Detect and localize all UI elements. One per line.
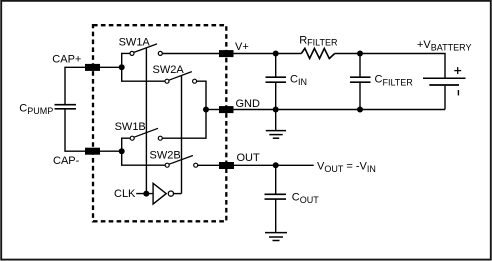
- ground symbol (input side): [266, 110, 286, 139]
- switch SW1B: [130, 128, 162, 140]
- drive line A (CLK phase): [145, 48, 147, 194]
- svg-text:GND: GND: [236, 98, 261, 110]
- wire inverter output to drive line B: [174, 193, 182, 195]
- label VOUT = -VIN: [317, 161, 376, 175]
- wire C_PUMP bottom to CAP- pin: [65, 109, 85, 151]
- label V+: [235, 41, 249, 53]
- wire SW2B to OUT pin: [198, 164, 219, 166]
- wire CAP- pin to internal node: [100, 150, 122, 152]
- label GND: [236, 98, 261, 110]
- label OUT: [237, 152, 261, 164]
- wire node CAP+ down to SW2A: [122, 67, 165, 81]
- junction node GND internal: [203, 107, 209, 113]
- junction node OUT (C_OUT top): [273, 162, 279, 168]
- junction node CFILTER top: [357, 51, 363, 57]
- label CLK: [114, 188, 136, 200]
- wire GND node to GND pin: [206, 109, 219, 111]
- svg-text:OUT: OUT: [237, 152, 261, 164]
- svg-text:SW2B: SW2B: [150, 149, 181, 161]
- capacitor C_FILTER: [350, 54, 371, 110]
- junction node VIN (C_IN top): [273, 51, 279, 57]
- pin GND: [219, 106, 234, 113]
- label R_FILTER: [299, 34, 338, 47]
- pin V+: [219, 50, 234, 57]
- capacitor C_PUMP: [55, 105, 77, 109]
- capacitor C_IN: [266, 54, 287, 110]
- wire CAP+ pin to C_PUMP top: [65, 67, 85, 104]
- wire SW1B to GND node: [162, 110, 206, 139]
- svg-text:SW2A: SW2A: [153, 64, 185, 76]
- svg-text:CLK: CLK: [114, 188, 136, 200]
- wire CAP+ pin to internal node: [100, 66, 122, 68]
- switch SW2B: [165, 156, 198, 168]
- wire GND rail (GND pin to battery -): [234, 109, 446, 111]
- junction CLK node on drive line A: [143, 191, 149, 197]
- svg-text:SW1B: SW1B: [115, 121, 146, 133]
- wire CLK to inverter input: [136, 193, 153, 195]
- wire SW1A to V+ pin: [162, 53, 219, 55]
- wire OUT pin to VOUT label: [234, 164, 314, 166]
- wire node CAP- up to SW1B: [122, 138, 130, 151]
- svg-text:CAP+: CAP+: [52, 54, 81, 66]
- switch SW2A: [165, 72, 197, 84]
- label C_PUMP: [19, 103, 53, 117]
- wire node VIN to R_FILTER: [276, 53, 302, 55]
- label CAP+: [52, 54, 81, 66]
- junction node CAP-: [119, 148, 125, 154]
- junction GND rail at C_IN: [273, 107, 279, 113]
- label CAP-: [53, 155, 80, 167]
- wire R_FILTER to node CFILTER: [335, 53, 360, 55]
- resistor R_FILTER: [301, 48, 334, 58]
- svg-text:CAP-: CAP-: [53, 155, 80, 167]
- wire V+ pin to node VIN: [234, 53, 276, 55]
- svg-text:SW1A: SW1A: [119, 37, 151, 49]
- label SW2B: [150, 149, 181, 161]
- junction node CAP+: [119, 64, 125, 70]
- pin CAP-: [85, 148, 100, 155]
- ground symbol (output side): [265, 233, 287, 241]
- drive line B (inverted phase): [181, 76, 183, 194]
- junction GND rail at C_FILTER: [357, 107, 363, 113]
- svg-text:V+: V+: [235, 41, 249, 53]
- pin CAP+: [85, 64, 100, 71]
- pin OUT: [219, 162, 234, 169]
- IC boundary (dashed box): [93, 25, 226, 221]
- capacitor C_OUT: [265, 165, 287, 232]
- switch SW1A: [130, 44, 162, 56]
- label SW1A: [119, 37, 151, 49]
- label C_IN: [290, 73, 307, 87]
- label SW2A: [153, 64, 185, 76]
- wire node CFILTER to battery +: [360, 54, 445, 78]
- wire node CAP- down to SW2B: [122, 151, 165, 165]
- inverter U1: [153, 183, 173, 204]
- label C_FILTER: [375, 74, 414, 88]
- wire SW2A to GND node: [197, 81, 206, 109]
- battery V_BATTERY: [423, 67, 466, 109]
- label SW1B: [115, 121, 146, 133]
- label C_OUT: [292, 191, 319, 205]
- label +V_BATTERY: [417, 39, 471, 53]
- wire node CAP+ up to SW1A: [122, 53, 130, 67]
